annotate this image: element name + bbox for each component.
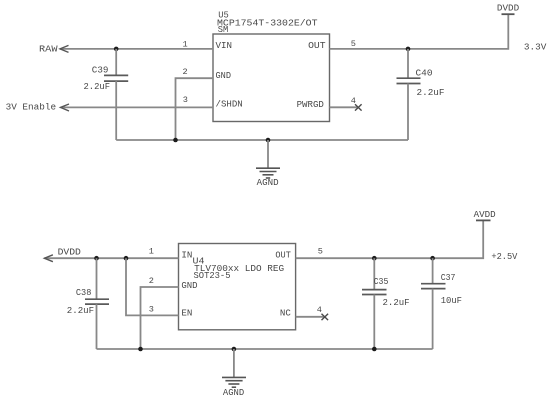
svg-text:2: 2 bbox=[149, 276, 154, 286]
ground rail wire (bottom circuit) bbox=[97, 348, 433, 350]
wire RAW net to U5 VIN (pin 1) bbox=[60, 48, 213, 50]
wire U5 GND (pin 2) to ground rail bbox=[176, 78, 214, 140]
svg-text:4: 4 bbox=[351, 96, 356, 106]
wire U5 PWRGD stub (pin 4) bbox=[330, 106, 358, 108]
svg-text:DVDD: DVDD bbox=[497, 2, 520, 13]
capacitor C37 bbox=[421, 258, 446, 349]
junction dot rail/U4 GND wire bbox=[138, 347, 143, 352]
svg-text:2.2uF: 2.2uF bbox=[67, 305, 94, 316]
svg-text:C38: C38 bbox=[76, 287, 92, 298]
svg-text:4: 4 bbox=[317, 305, 322, 315]
svg-text:1: 1 bbox=[183, 40, 188, 50]
ground symbol AGND (bottom) bbox=[222, 349, 246, 387]
svg-text:+2.5V: +2.5V bbox=[491, 251, 517, 262]
wire DVDD net to U4 IN (pin 1) bbox=[44, 257, 178, 259]
power symbol AVDD bbox=[476, 219, 491, 221]
svg-text:GND: GND bbox=[181, 280, 198, 291]
capacitor C38 bbox=[85, 258, 109, 349]
svg-text:10uF: 10uF bbox=[441, 295, 462, 306]
svg-text:RAW: RAW bbox=[39, 43, 58, 54]
ground symbol AGND (top) bbox=[256, 140, 280, 178]
junction dot rail/U5 GND wire bbox=[173, 138, 178, 143]
svg-text:C37: C37 bbox=[441, 272, 456, 283]
svg-text:3.3V: 3.3V bbox=[524, 42, 547, 53]
ground rail wire (top circuit) bbox=[116, 139, 408, 141]
svg-text:GND: GND bbox=[216, 70, 232, 81]
svg-text:OUT: OUT bbox=[308, 40, 326, 51]
svg-text:SM: SM bbox=[218, 24, 229, 35]
junction dot rail/C35 bbox=[372, 347, 377, 352]
svg-text:5: 5 bbox=[318, 247, 323, 257]
wire U4 NC stub (pin 4) bbox=[296, 316, 324, 318]
op-amp-style IC body U5 bbox=[213, 34, 330, 122]
wire U5 OUT (pin 5) to DVDD bbox=[330, 14, 509, 49]
power symbol DVDD (top) bbox=[502, 13, 515, 15]
svg-text:1: 1 bbox=[149, 247, 154, 257]
svg-text:IN: IN bbox=[181, 249, 192, 260]
svg-text:VIN: VIN bbox=[216, 40, 233, 51]
svg-text:OUT: OUT bbox=[275, 250, 291, 261]
svg-text:2.2uF: 2.2uF bbox=[383, 297, 410, 308]
svg-text:EN: EN bbox=[181, 308, 192, 319]
svg-text:C39: C39 bbox=[92, 64, 109, 75]
capacitor C39 bbox=[104, 49, 128, 140]
arrow RAW off-page connector bbox=[60, 45, 69, 52]
svg-text:C40: C40 bbox=[416, 68, 433, 79]
arrow DVDD off-page connector (bottom) bbox=[44, 255, 53, 262]
wire 3V Enable net to U5 /SHDN (pin 3) bbox=[61, 106, 214, 108]
svg-text:C35: C35 bbox=[374, 276, 389, 287]
svg-text:AGND: AGND bbox=[223, 388, 244, 398]
svg-text:MCP1754T-3302E/OT: MCP1754T-3302E/OT bbox=[217, 18, 318, 29]
svg-text:SOT23-5: SOT23-5 bbox=[194, 270, 231, 281]
arrow 3V Enable off-page connector bbox=[61, 104, 70, 111]
junction dot OUT/C37 bbox=[430, 256, 435, 261]
junction dot DVDD/C38 bbox=[94, 256, 99, 261]
junction dot rail/AGND symbol (bottom) bbox=[232, 347, 237, 352]
no-connect X (U5 PWRGD) bbox=[355, 104, 362, 110]
svg-text:2.2uF: 2.2uF bbox=[84, 81, 111, 92]
svg-text:2: 2 bbox=[183, 67, 188, 77]
svg-text:DVDD: DVDD bbox=[58, 247, 82, 258]
IC body U4 bbox=[179, 244, 296, 330]
junction dot DVDD/EN wire bbox=[124, 256, 129, 261]
junction dot OUT/C40 bbox=[406, 47, 411, 52]
svg-text:5: 5 bbox=[351, 39, 356, 49]
svg-text:2.2uF: 2.2uF bbox=[417, 87, 445, 98]
svg-text:AVDD: AVDD bbox=[474, 209, 496, 220]
junction dot OUT/C35 bbox=[372, 256, 377, 261]
wire U4 EN (pin 3) to DVDD wire bbox=[126, 258, 179, 315]
wire U4 GND (pin 2) to ground rail bbox=[141, 287, 179, 349]
no-connect X (U4 NC) bbox=[322, 314, 329, 320]
junction dot RAW/C39 bbox=[114, 47, 119, 52]
svg-text:PWRGD: PWRGD bbox=[297, 99, 325, 110]
svg-text:3: 3 bbox=[149, 304, 154, 314]
svg-text:NC: NC bbox=[280, 308, 291, 319]
capacitor C40 bbox=[397, 49, 421, 140]
svg-text:3: 3 bbox=[183, 95, 188, 105]
svg-text:3V Enable: 3V Enable bbox=[6, 102, 56, 113]
svg-text:AGND: AGND bbox=[257, 178, 279, 188]
wire U4 OUT (pin 5) to AVDD bbox=[296, 220, 484, 258]
capacitor C35 bbox=[362, 258, 387, 349]
svg-text:/SHDN: /SHDN bbox=[216, 98, 243, 109]
junction dot rail/AGND symbol bbox=[266, 138, 271, 143]
